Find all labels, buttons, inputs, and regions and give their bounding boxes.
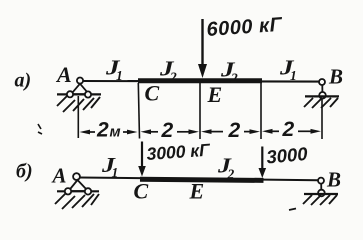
dimension label 2 (C-E): [161, 119, 174, 142]
svg-text:1: 1: [116, 68, 123, 83]
support B bottom: hatching: [303, 195, 337, 205]
stray ink mark bottom right: [289, 209, 296, 211]
dimension segment E-F with arrows: [201, 129, 260, 134]
svg-text:1: 1: [290, 68, 297, 83]
node label C (top beam): [145, 81, 160, 106]
dimension segment F-B with arrows: [262, 129, 321, 134]
svg-text:3000: 3000: [266, 143, 310, 168]
label J2 right (top beam): [220, 58, 238, 86]
svg-text:2: 2: [96, 119, 109, 142]
support B top: hatching: [304, 98, 338, 108]
svg-text:2: 2: [228, 119, 241, 142]
force label 6000 kg: [206, 14, 285, 41]
beam a thin line A to B: [83, 80, 319, 83]
svg-text:1: 1: [112, 165, 119, 180]
svg-text:C: C: [134, 179, 149, 204]
support B top: link and roller circle: [319, 85, 326, 99]
label a): [15, 70, 32, 92]
dimension segment A-C with arrows: [80, 130, 138, 135]
label J1 (bottom beam): [101, 153, 118, 180]
beam b thin line A to B: [80, 178, 318, 181]
svg-text:B: B: [326, 168, 341, 192]
dimension label 2 (F-B): [282, 118, 295, 141]
extension line at C: [138, 83, 139, 139]
support A bottom: hatching: [55, 193, 99, 209]
beam a thick section C to F (stiff J2 span): [138, 78, 262, 83]
svg-text:2: 2: [227, 167, 235, 182]
extension line at A: [77, 96, 79, 138]
node label A (top beam): [55, 62, 72, 87]
svg-text:E: E: [207, 82, 223, 107]
label J1 right (top beam): [279, 56, 297, 84]
dimension label 2m: [96, 119, 121, 142]
support B top: pin circle at beam end: [319, 79, 325, 85]
svg-text:б): б): [16, 161, 33, 183]
support B bottom: link and roller circle: [318, 184, 325, 197]
extension line at B: [321, 99, 323, 140]
label J2 (bottom beam): [217, 154, 235, 182]
stray ink mark left margin: [38, 124, 42, 134]
support A bottom: roller circles: [65, 188, 91, 194]
svg-text:2: 2: [282, 118, 295, 141]
support A bottom: ground line: [57, 190, 99, 192]
node label B (top beam): [328, 65, 343, 89]
support A top: roller circles: [67, 91, 91, 97]
svg-text:A: A: [55, 62, 72, 87]
svg-text:м: м: [110, 124, 121, 141]
support B bottom: pin circle at beam end: [318, 178, 324, 184]
beam b thick section C to F: [140, 179, 264, 180]
label J2 left (top beam): [159, 57, 177, 85]
svg-text:а): а): [15, 70, 32, 92]
support B bottom: ground line: [304, 193, 338, 195]
support A bottom: pin circle: [73, 173, 80, 180]
extension line at E: [199, 83, 201, 139]
svg-text:E: E: [189, 179, 205, 204]
svg-text:2: 2: [161, 119, 174, 142]
support A bottom: triangle: [69, 180, 89, 191]
label J1 left (top beam): [105, 56, 123, 84]
force 6000 kg arrow at E: [198, 19, 207, 78]
force 3000 kg arrow at C (bottom beam): [138, 142, 146, 177]
force label 3000: [266, 143, 310, 168]
node label C (bottom beam): [134, 179, 149, 204]
node label A (bottom beam): [51, 164, 67, 188]
node label B (bottom beam): [326, 168, 341, 192]
svg-text:B: B: [328, 65, 343, 89]
svg-text:A: A: [51, 164, 67, 188]
force 3000 arrow at F (bottom beam): [259, 147, 267, 179]
svg-text:2: 2: [169, 70, 177, 85]
support A top: hatching: [57, 96, 100, 112]
support A top: ground line: [57, 93, 101, 95]
support A top: pin circle: [77, 78, 83, 84]
node label E (bottom beam): [189, 179, 205, 204]
support B top: ground line: [305, 95, 339, 97]
force label 3000 kg: [146, 140, 212, 164]
svg-text:2: 2: [230, 71, 238, 86]
extension line at F: [260, 83, 262, 139]
label b): [16, 161, 33, 183]
dimension segment C-E with arrows: [141, 129, 200, 134]
node label E (top beam): [207, 82, 223, 107]
svg-text:C: C: [145, 81, 160, 106]
dimension label 2 (E-F): [228, 119, 241, 142]
support A top: triangle: [71, 84, 89, 95]
